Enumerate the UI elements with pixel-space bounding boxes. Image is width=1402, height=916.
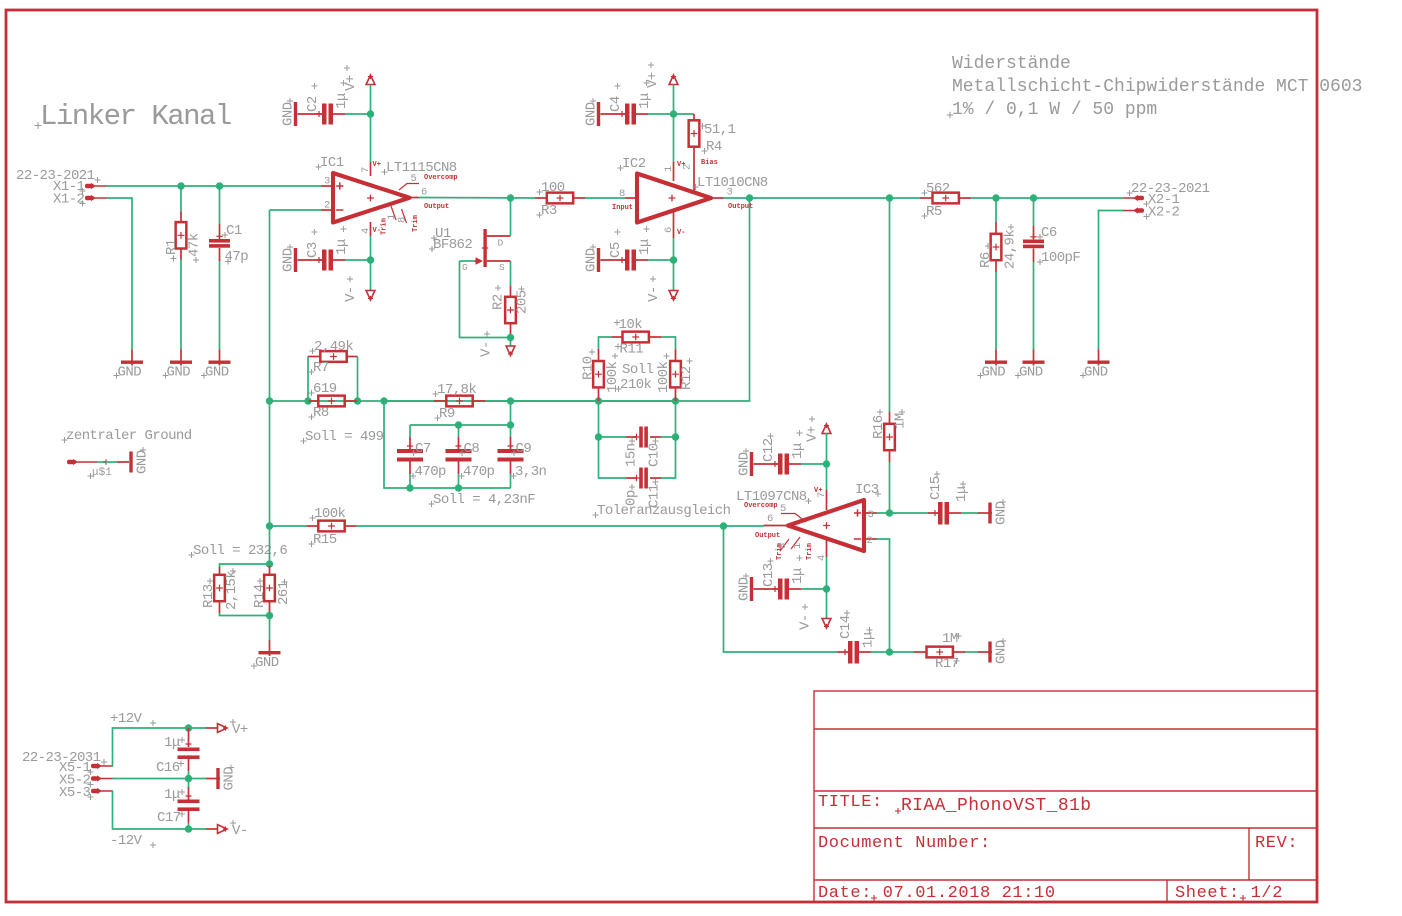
svg-text:Input: Input bbox=[612, 204, 633, 212]
svg-text:GND: GND bbox=[281, 248, 297, 272]
svg-text:IC1: IC1 bbox=[320, 155, 344, 171]
svg-text:1μ: 1μ bbox=[790, 568, 806, 584]
svg-text:3: 3 bbox=[868, 509, 874, 521]
svg-text:R12: R12 bbox=[679, 366, 695, 390]
svg-text:2,49k: 2,49k bbox=[314, 339, 353, 355]
svg-text:R9: R9 bbox=[439, 406, 455, 422]
svg-text:Trim: Trim bbox=[412, 215, 420, 232]
svg-text:C17: C17 bbox=[157, 810, 181, 826]
svg-text:15n: 15n bbox=[624, 443, 640, 467]
svg-text:-12V: -12V bbox=[110, 833, 143, 849]
svg-text:470p: 470p bbox=[463, 464, 495, 480]
svg-text:R6: R6 bbox=[978, 252, 994, 268]
svg-text:V+: V+ bbox=[805, 426, 821, 442]
svg-text:6: 6 bbox=[663, 227, 675, 233]
svg-text:R3: R3 bbox=[541, 203, 557, 219]
svg-text:V+: V+ bbox=[814, 487, 822, 495]
svg-text:C8: C8 bbox=[464, 441, 480, 457]
svg-text:1μ: 1μ bbox=[637, 239, 653, 255]
svg-text:GND: GND bbox=[994, 501, 1010, 525]
svg-text:3,3n: 3,3n bbox=[515, 464, 547, 480]
svg-text:Soll = 232,6: Soll = 232,6 bbox=[193, 543, 287, 559]
svg-text:V+: V+ bbox=[645, 72, 661, 88]
svg-text:1μ: 1μ bbox=[164, 735, 180, 751]
svg-text:C5: C5 bbox=[608, 242, 624, 258]
svg-text:GND: GND bbox=[118, 365, 142, 381]
svg-text:R7: R7 bbox=[313, 360, 329, 376]
svg-text:1M: 1M bbox=[893, 413, 909, 429]
svg-text:C6: C6 bbox=[1041, 225, 1057, 241]
svg-text:Widerstände: Widerstände bbox=[952, 54, 1071, 74]
svg-text:C16: C16 bbox=[156, 760, 180, 776]
svg-text:GND: GND bbox=[584, 248, 600, 272]
svg-text:C3: C3 bbox=[305, 242, 321, 258]
svg-text:1μ: 1μ bbox=[954, 486, 970, 502]
svg-text:210k: 210k bbox=[620, 377, 652, 393]
svg-text:GND: GND bbox=[255, 655, 279, 671]
svg-text:1μ: 1μ bbox=[790, 443, 806, 459]
svg-text:2,15k: 2,15k bbox=[224, 571, 240, 610]
svg-text:GND: GND bbox=[135, 450, 151, 474]
svg-text:1% / 0,1 W / 50 ppm: 1% / 0,1 W / 50 ppm bbox=[952, 100, 1157, 120]
svg-text:V-: V- bbox=[479, 341, 495, 357]
svg-text:Document Number:: Document Number: bbox=[818, 834, 991, 853]
svg-text:R16: R16 bbox=[871, 415, 887, 439]
svg-text:1μ: 1μ bbox=[334, 239, 350, 255]
svg-text:V-: V- bbox=[343, 286, 359, 302]
svg-text:R2: R2 bbox=[491, 294, 507, 310]
svg-text:100pF: 100pF bbox=[1041, 250, 1080, 266]
svg-text:100k: 100k bbox=[656, 361, 672, 393]
svg-text:R17: R17 bbox=[935, 656, 959, 672]
svg-text:1M: 1M bbox=[942, 631, 958, 647]
svg-text:Trim: Trim bbox=[806, 543, 814, 560]
svg-text:V-: V- bbox=[677, 229, 685, 237]
svg-text:TITLE:: TITLE: bbox=[818, 793, 883, 812]
svg-text:51,1: 51,1 bbox=[704, 122, 736, 138]
svg-text:Soll: Soll bbox=[622, 362, 654, 378]
svg-text:C15: C15 bbox=[928, 476, 944, 500]
svg-text:C10: C10 bbox=[647, 443, 663, 467]
svg-text:47k: 47k bbox=[187, 233, 203, 257]
svg-text:C7: C7 bbox=[415, 441, 431, 457]
svg-text:Output: Output bbox=[755, 532, 780, 540]
svg-text:R4: R4 bbox=[706, 139, 722, 155]
svg-text:X5-3: X5-3 bbox=[59, 785, 91, 801]
svg-text:GND: GND bbox=[222, 767, 238, 791]
svg-text:2: 2 bbox=[682, 164, 694, 170]
svg-text:1μ: 1μ bbox=[637, 93, 653, 109]
svg-text:GND: GND bbox=[281, 102, 297, 126]
svg-text:4: 4 bbox=[360, 228, 372, 234]
svg-text:Date: 07.01.2018 21:10: Date: 07.01.2018 21:10 bbox=[818, 884, 1056, 903]
svg-text:C14: C14 bbox=[838, 615, 854, 639]
svg-text:S: S bbox=[499, 262, 505, 273]
svg-text:R10: R10 bbox=[581, 356, 597, 380]
svg-text:GND: GND bbox=[1084, 365, 1108, 381]
svg-text:μ$1: μ$1 bbox=[92, 467, 112, 479]
svg-text:8: 8 bbox=[397, 217, 409, 223]
svg-text:GND: GND bbox=[205, 365, 229, 381]
svg-text:C12: C12 bbox=[761, 438, 777, 462]
svg-text:V+: V+ bbox=[373, 161, 381, 169]
svg-text:V-: V- bbox=[646, 286, 662, 302]
svg-text:R11: R11 bbox=[620, 342, 644, 358]
svg-text:2: 2 bbox=[867, 535, 873, 547]
svg-text:R5: R5 bbox=[926, 204, 942, 220]
svg-text:zentraler Ground: zentraler Ground bbox=[66, 428, 192, 444]
svg-text:7: 7 bbox=[360, 167, 372, 173]
svg-text:Output: Output bbox=[424, 203, 449, 211]
svg-text:IC2: IC2 bbox=[622, 156, 646, 172]
svg-text:G: G bbox=[462, 262, 468, 273]
svg-text:RIAA_PhonoVST_81b: RIAA_PhonoVST_81b bbox=[901, 796, 1091, 816]
svg-text:1μ: 1μ bbox=[861, 632, 877, 648]
svg-text:24,9k: 24,9k bbox=[1003, 230, 1019, 269]
svg-text:C2: C2 bbox=[305, 96, 321, 112]
svg-text:2: 2 bbox=[324, 200, 330, 212]
svg-text:C4: C4 bbox=[608, 96, 624, 112]
svg-text:1: 1 bbox=[663, 166, 675, 172]
svg-text:Toleranzausgleich: Toleranzausgleich bbox=[597, 503, 731, 519]
svg-text:Bias: Bias bbox=[701, 159, 718, 167]
svg-text:10k: 10k bbox=[619, 317, 643, 333]
svg-text:REV:: REV: bbox=[1255, 834, 1298, 853]
svg-text:C1: C1 bbox=[226, 223, 242, 239]
svg-text:V-: V- bbox=[798, 614, 814, 630]
svg-text:R14: R14 bbox=[252, 584, 268, 608]
svg-text:R13: R13 bbox=[201, 584, 217, 608]
svg-text:GND: GND bbox=[982, 365, 1006, 381]
svg-text:GND: GND bbox=[1019, 365, 1043, 381]
svg-text:R8: R8 bbox=[313, 405, 329, 421]
svg-text:Trim: Trim bbox=[776, 543, 784, 560]
svg-text:V-: V- bbox=[232, 823, 248, 839]
svg-text:3: 3 bbox=[324, 176, 330, 188]
svg-text:205: 205 bbox=[515, 290, 531, 314]
svg-text:619: 619 bbox=[313, 381, 337, 397]
svg-text:IC3: IC3 bbox=[855, 482, 879, 498]
svg-text:470p: 470p bbox=[415, 464, 447, 480]
svg-text:R15: R15 bbox=[313, 532, 337, 548]
svg-text:C13: C13 bbox=[761, 563, 777, 587]
svg-text:562: 562 bbox=[926, 181, 950, 197]
svg-text:D: D bbox=[498, 238, 504, 249]
svg-text:X2-2: X2-2 bbox=[1148, 205, 1180, 221]
svg-text:V+: V+ bbox=[232, 722, 248, 738]
svg-text:LT1097CN8: LT1097CN8 bbox=[736, 489, 807, 505]
svg-text:GND: GND bbox=[994, 640, 1010, 664]
svg-text:+12V: +12V bbox=[110, 711, 143, 727]
svg-text:1μ: 1μ bbox=[334, 93, 350, 109]
svg-text:LT1115CN8: LT1115CN8 bbox=[386, 160, 457, 176]
svg-text:C9: C9 bbox=[516, 441, 532, 457]
svg-text:Soll = 499: Soll = 499 bbox=[305, 429, 384, 445]
svg-text:Soll = 4,23nF: Soll = 4,23nF bbox=[433, 492, 535, 508]
svg-text:Linker Kanal: Linker Kanal bbox=[40, 100, 231, 133]
svg-text:GND: GND bbox=[737, 577, 753, 601]
svg-text:X1-2: X1-2 bbox=[53, 192, 85, 208]
svg-text:LT1010CN8: LT1010CN8 bbox=[697, 175, 768, 191]
svg-text:Metallschicht-Chipwiderstände: Metallschicht-Chipwiderstände MCT 0603 bbox=[952, 77, 1362, 97]
svg-text:100: 100 bbox=[541, 180, 565, 196]
svg-text:6: 6 bbox=[767, 513, 773, 525]
svg-text:100k: 100k bbox=[314, 506, 346, 522]
svg-text:17,8k: 17,8k bbox=[437, 382, 476, 398]
svg-text:8: 8 bbox=[619, 188, 625, 200]
svg-text:1: 1 bbox=[792, 543, 804, 549]
svg-text:GND: GND bbox=[737, 452, 753, 476]
svg-text:Trim: Trim bbox=[381, 218, 389, 235]
svg-text:1μ: 1μ bbox=[164, 787, 180, 803]
svg-text:R1: R1 bbox=[164, 239, 180, 255]
svg-text:BF862: BF862 bbox=[433, 237, 472, 253]
svg-text:GND: GND bbox=[584, 102, 600, 126]
svg-text:Sheet: 1/2: Sheet: 1/2 bbox=[1175, 884, 1283, 903]
svg-text:GND: GND bbox=[167, 365, 191, 381]
